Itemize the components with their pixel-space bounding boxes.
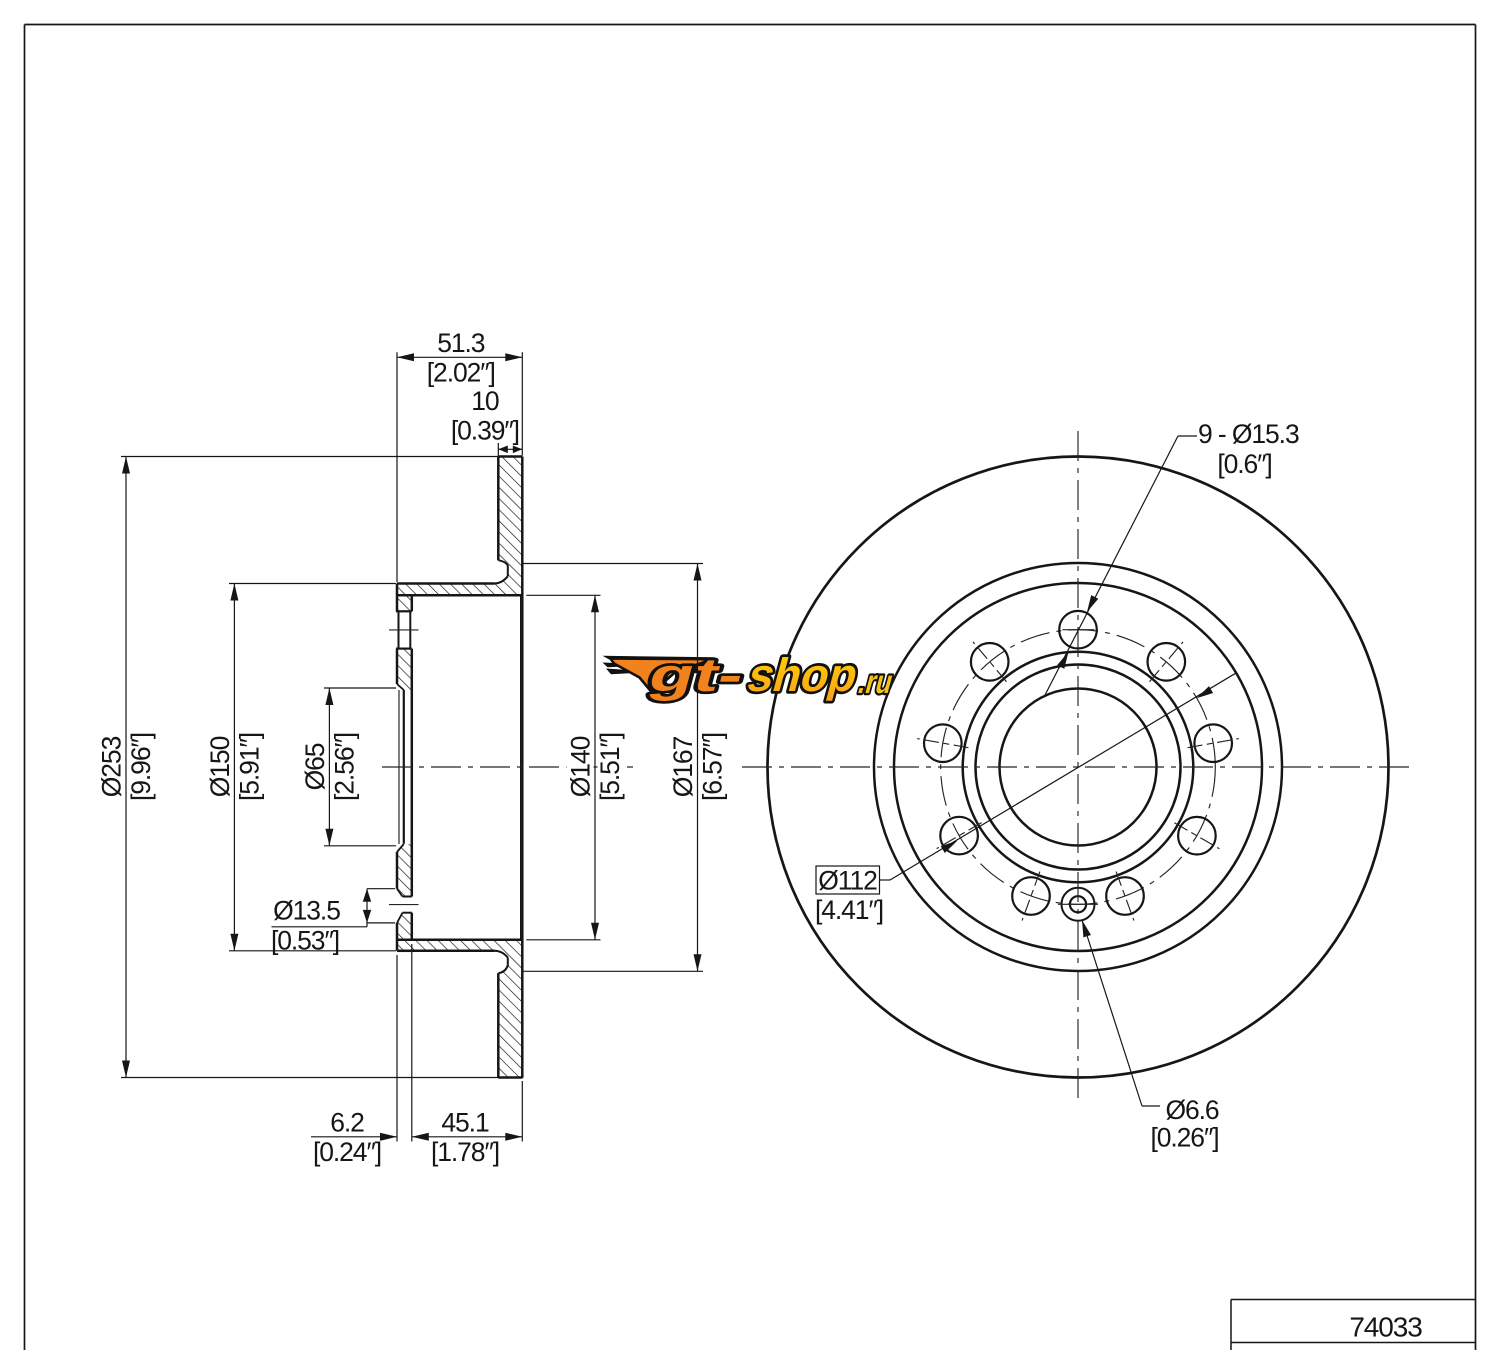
front view: bolt hole radial centerline (973, 642, 1007, 682)
border frame right (1475, 25, 1477, 1350)
leader O6.6 (1082, 920, 1142, 1106)
dimension O253 line (125, 457, 127, 1078)
section: flange right face (411, 595, 414, 611)
dimension O13.5 line (366, 889, 368, 927)
front view: bolt hole at 290 deg (1106, 877, 1144, 915)
dimension 10 line/arrows (498, 448, 522, 450)
svg-text:9 - Ø15.3: 9 - Ø15.3 (1198, 419, 1299, 449)
section: bore top chamfer (397, 684, 404, 690)
section: OD top edge (498, 455, 522, 458)
front view: hub circle 2 (976, 665, 1181, 870)
svg-text:51.3: 51.3 (437, 328, 485, 358)
section: bore wall (403, 690, 405, 844)
dimension O13.5 extension lines (367, 888, 395, 890)
label O112 box (816, 866, 880, 894)
dimension 51.3 line (397, 356, 522, 358)
section: bolt hole walls (396, 610, 412, 612)
front view: bolt hole radial centerline (1174, 823, 1219, 849)
front view: bolt hole at 330 deg (1178, 817, 1216, 855)
section: band right face (521, 457, 524, 1078)
section: hub flange lower hatched area (397, 844, 412, 951)
front view: center bore circle (1000, 689, 1157, 846)
front view: hub circle 1 (963, 652, 1194, 883)
dimension O140 line (594, 595, 596, 940)
leader 9-O15.3 tick (1178, 435, 1197, 437)
dimension O150 extension lines (229, 583, 396, 585)
svg-text:[1.78″]: [1.78″] (431, 1137, 499, 1167)
section: band left face top (497, 457, 500, 561)
svg-text:[0.53″]: [0.53″] (271, 925, 339, 955)
svg-text:45.1: 45.1 (441, 1107, 489, 1137)
section: bolt hole centerline (389, 629, 419, 631)
front view: screw hole countersink circle (1062, 888, 1095, 921)
svg-text:[0.24″]: [0.24″] (313, 1137, 381, 1167)
svg-text:Ø253: Ø253 (97, 736, 127, 797)
svg-text:[2.56″]: [2.56″] (329, 733, 359, 801)
svg-text:[2.02″]: [2.02″] (427, 357, 495, 387)
front view: bolt hole radial centerline (917, 739, 968, 748)
dimension O167 extension lines (522, 563, 703, 565)
svg-text:Ø140: Ø140 (566, 736, 596, 797)
section: screw hole centerline (389, 904, 419, 906)
front view: bolt hole at 130 deg (971, 643, 1009, 681)
front view: bolt circle (dash-dot) (941, 630, 1216, 905)
section: top undercut groove (498, 560, 508, 576)
dimension 10 extension line (497, 443, 499, 456)
svg-text:[6.57″]: [6.57″] (698, 733, 728, 801)
front view: bolt hole radial centerline (1150, 642, 1184, 682)
section: horizontal centerline (382, 766, 633, 768)
section: bore bottom chamfer (397, 844, 404, 852)
svg-text:[5.91″]: [5.91″] (234, 733, 264, 801)
section: countersink chamfers (397, 889, 403, 897)
section: recess rim chamfer line (520, 595, 522, 940)
front view: bolt hole at 10 deg (1194, 724, 1232, 762)
section: OD bottom edge (498, 1076, 522, 1079)
svg-text:Ø112: Ø112 (818, 865, 877, 895)
leader 9-O15.3 line (1044, 436, 1178, 697)
section: flange bottom edge (397, 950, 412, 953)
dimension O65 line (328, 688, 330, 846)
front view: bolt hole at 210 deg (940, 817, 978, 855)
svg-text:10: 10 (471, 386, 499, 416)
section: hat inner surface bottom (O140) (397, 939, 522, 942)
section: hat inner surface top (O140) (397, 594, 522, 597)
section: bottom undercut groove (498, 958, 508, 974)
section: bottom braking band hatched area (397, 940, 522, 1078)
section: top hat fillet (495, 576, 508, 583)
section: hub flange upper hatched area (397, 584, 412, 691)
dimension 6.2/45.1 extension lines (396, 955, 398, 1142)
logo gt-shop.ru (603, 650, 902, 702)
svg-text:[9.96″]: [9.96″] (126, 733, 156, 801)
svg-text:Ø13.5: Ø13.5 (273, 895, 340, 925)
svg-text:Ø6.6: Ø6.6 (1165, 1095, 1218, 1125)
section: screw hole walls (403, 896, 412, 898)
front view: bolt hole radial centerline (1116, 872, 1134, 921)
svg-text:[0.26″]: [0.26″] (1151, 1122, 1219, 1152)
svg-text:Ø167: Ø167 (668, 736, 698, 797)
dimension 51.3 extension lines (396, 352, 398, 582)
svg-text:[4.41″]: [4.41″] (815, 895, 883, 925)
section: bolt hole opening (396, 611, 413, 648)
svg-text:6.2: 6.2 (330, 1107, 364, 1137)
section: screw hole opening (396, 889, 413, 923)
dimension O140 extension lines (526, 594, 600, 596)
svg-text:shop: shop (742, 650, 864, 702)
svg-text:Ø65: Ø65 (300, 743, 330, 790)
front view: bolt hole at 250 deg (1012, 877, 1050, 915)
section: hat outer surface top (397, 582, 495, 585)
front view: bolt hole at 50 deg (1148, 643, 1186, 681)
svg-text:74033: 74033 (1349, 1311, 1422, 1342)
dimension 6.2 line (311, 1136, 397, 1138)
dimension O65 extension lines (324, 687, 396, 689)
front view: bolt hole tangential centerline (1063, 629, 1095, 631)
front view: horizontal centerline (742, 766, 1413, 768)
section: flange top edge (396, 582, 399, 585)
front view: bolt hole at 90 deg (1059, 611, 1097, 649)
front view: vertical centerline (1077, 431, 1079, 1103)
svg-text:[5.51″]: [5.51″] (595, 733, 625, 801)
dimension O253 extension lines (121, 456, 498, 458)
section: bore second line (398, 690, 400, 844)
front view: outer diameter circle (768, 457, 1389, 1078)
section: top braking band hatched area (397, 457, 522, 596)
front view: O150 circle (894, 583, 1262, 951)
front view: O167 circle (874, 563, 1282, 971)
border frame top (25, 24, 1476, 26)
dimension O167 line (697, 564, 699, 972)
front view: bolt hole at 170 deg (924, 724, 962, 762)
section: hat outer surface bottom (397, 950, 495, 953)
front view: bolt hole radial centerline (937, 823, 982, 849)
front view: screw hole circle (1070, 896, 1086, 912)
front view: bolt hole radial centerline (1188, 739, 1239, 748)
dimension 45.1 line (412, 1136, 523, 1138)
section: band left face bottom (497, 973, 500, 1077)
front view: screw hole tangential centerline (1058, 903, 1098, 905)
front view: bolt hole radial centerline (1022, 872, 1040, 921)
section: flange left face (396, 584, 399, 612)
svg-text:Ø150: Ø150 (205, 736, 235, 797)
title block (1231, 1299, 1476, 1301)
section: bottom hat fillet (495, 951, 508, 958)
dimension O140 text (567, 735, 594, 799)
dimension O112 leader/line (890, 673, 1236, 880)
dimension O150 line (233, 584, 235, 951)
svg-text:[0.6″]: [0.6″] (1217, 449, 1271, 479)
border frame left (24, 25, 26, 1350)
svg-text:gt-: gt- (643, 650, 750, 702)
dimension O13.5 leader (272, 926, 368, 928)
svg-text:[0.39″]: [0.39″] (451, 416, 519, 446)
